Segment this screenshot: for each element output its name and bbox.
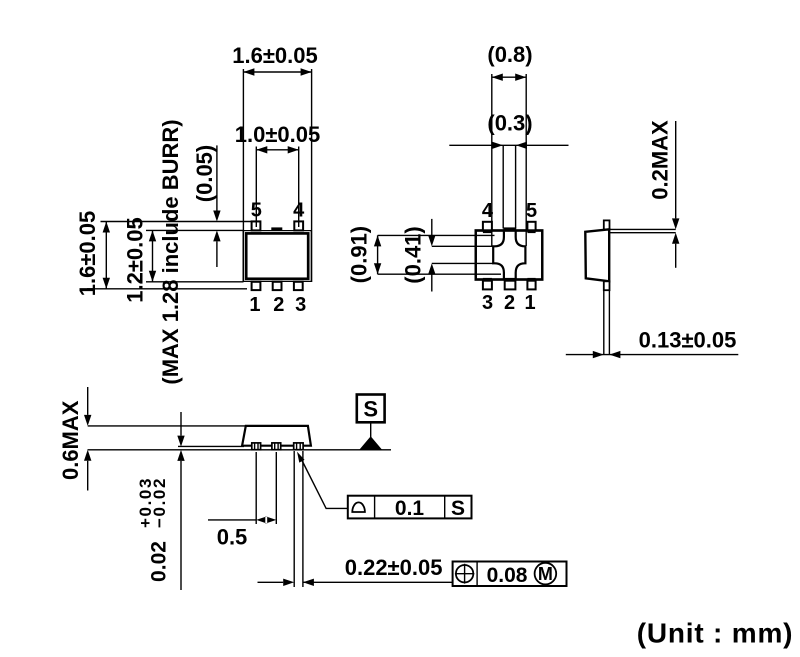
dimension line 0.5 [208, 519, 256, 521]
pin 5 bottom-view [527, 222, 535, 231]
lead 2 front view [272, 443, 281, 450]
svg-text:S: S [451, 497, 465, 520]
extension lines width 1.6 [243, 69, 311, 282]
datum stem [370, 422, 372, 438]
package body top view [246, 233, 308, 278]
extension lines width 1.0 [256, 147, 298, 227]
frame divider [476, 562, 478, 587]
body thin outline [243, 231, 311, 282]
dimension 0.05 lower line with up arrow [213, 230, 220, 241]
svg-text:(MAX 1.28 include BURR): (MAX 1.28 include BURR) [158, 119, 183, 384]
dimension 0.6MAX upper [87, 387, 89, 415]
pin 5 top-view [252, 221, 261, 230]
gate mark bump [271, 227, 282, 230]
dimension 0.41 upper segment [431, 219, 433, 235]
svg-text:1.6±0.05: 1.6±0.05 [75, 211, 100, 296]
dimension 0.05 upper line with down arrow [216, 145, 218, 210]
extension line 0.91 top [378, 234, 495, 236]
datum S box [357, 395, 385, 423]
pin tab bottom side-view [604, 281, 610, 290]
svg-text:0.13±0.05: 0.13±0.05 [639, 328, 737, 353]
svg-text:0.6MAX: 0.6MAX [58, 400, 83, 480]
dimension 0.41 lower segment [428, 263, 435, 274]
profile of surface symbol [352, 502, 365, 512]
svg-text:1.2±0.05: 1.2±0.05 [123, 217, 148, 302]
seating plane line [88, 449, 392, 451]
lead side-view lines [604, 290, 610, 354]
svg-text:5: 5 [251, 200, 262, 222]
dimension line 0.22±0.05 [258, 581, 453, 583]
position symbol [456, 565, 473, 582]
pin 4 stub [483, 231, 492, 234]
lead 1 centerline [255, 452, 257, 524]
pin 2 stub [504, 278, 516, 281]
lead frame pattern left outline [493, 231, 504, 281]
pin 1 top-view [252, 282, 261, 290]
leader line [301, 458, 348, 509]
dimension line 1.2±0.05 [152, 230, 154, 281]
pin 4 centerline [298, 221, 300, 227]
svg-text:3: 3 [295, 294, 306, 316]
leader arrowhead [297, 452, 305, 463]
body side view [585, 229, 609, 281]
svg-text:0.2MAX: 0.2MAX [648, 120, 673, 200]
svg-text:(0.41): (0.41) [401, 226, 426, 283]
svg-text:4: 4 [293, 200, 305, 222]
dimension line (0.3) [449, 144, 568, 146]
svg-text:1: 1 [249, 294, 260, 316]
svg-text:5: 5 [526, 200, 537, 222]
pin 4 top-view [294, 221, 303, 230]
package body bottom view [476, 231, 543, 280]
dimension 0.2MAX upper [675, 121, 677, 218]
lead 3 front view [294, 443, 303, 450]
lead frame pattern right outline [516, 231, 526, 281]
body outline redraw [476, 231, 543, 280]
dimension line (0.91) [377, 235, 379, 274]
svg-text:(0.8): (0.8) [487, 42, 532, 67]
extension line body top [146, 229, 244, 231]
pin 2 top-view [273, 282, 282, 290]
extension line body bottom [146, 281, 244, 283]
pin 5 stub [527, 231, 535, 234]
MMC modifier circle [535, 563, 557, 585]
pin 2 bottom-view [505, 281, 516, 290]
svg-text:0.1: 0.1 [395, 497, 425, 520]
svg-text:2: 2 [504, 292, 515, 314]
pin 3 top-view [294, 282, 303, 290]
frame dividers [375, 496, 445, 519]
body bottom extension line [178, 445, 244, 447]
svg-text:2: 2 [273, 294, 284, 316]
datum triangle [359, 436, 382, 450]
extension line 0.91 bottom [378, 273, 501, 275]
dimension 0.02 upper [180, 412, 182, 436]
pin 3 stub [483, 278, 492, 281]
pin 3 bottom-view [483, 281, 492, 290]
svg-text:3: 3 [482, 292, 493, 314]
extension lines 0.8 [492, 74, 526, 246]
extension line pin tops [101, 221, 262, 223]
extension lines 0.3 [503, 145, 515, 228]
extension line pin bottoms [87, 288, 247, 290]
max height line [88, 425, 245, 427]
svg-text:1.6±0.05: 1.6±0.05 [232, 43, 317, 68]
center lead stub top [503, 227, 516, 230]
svg-text:M: M [538, 564, 553, 584]
lead 3 edge lines [294, 451, 303, 587]
feature control frame profile [348, 496, 472, 519]
dimension line 1.6±0.05 left [105, 222, 107, 289]
svg-text:(0.3): (0.3) [487, 111, 532, 136]
svg-text:(Unit : mm): (Unit : mm) [637, 618, 794, 649]
svg-text:0.02: 0.02 [148, 541, 171, 582]
svg-text:1: 1 [524, 292, 535, 314]
dimension 0.6MAX lower [84, 450, 91, 461]
lead 1 front view [252, 443, 261, 450]
svg-text:(0.05): (0.05) [192, 145, 217, 202]
pin 1 bottom-view [527, 281, 535, 290]
pin 4 bottom-view [483, 222, 492, 231]
feature control frame position [453, 562, 567, 587]
lead 2 centerline [275, 452, 277, 524]
dimension line 1.6±0.05 top [243, 71, 311, 73]
svg-text:0.08: 0.08 [487, 564, 528, 587]
dimension line (0.8) [492, 76, 526, 78]
svg-text:0.22±0.05: 0.22±0.05 [345, 555, 443, 580]
dimension 0.02 lower [177, 450, 184, 461]
svg-text:1.0±0.05: 1.0±0.05 [235, 122, 320, 147]
lead top-surface lines [610, 229, 676, 232]
pin 5 centerline [255, 221, 257, 227]
dimension line 0.13±0.05 [566, 354, 739, 356]
svg-text:S: S [363, 397, 378, 422]
svg-text:4: 4 [482, 200, 494, 222]
dimension 0.2MAX lower [672, 233, 679, 244]
pin tab top side-view [604, 220, 610, 229]
lead inner ticks [255, 443, 301, 450]
svg-text:(0.91): (0.91) [347, 226, 372, 283]
dimension line 1.0±0.05 [256, 149, 298, 151]
body front view [242, 426, 311, 446]
svg-text:0.5: 0.5 [217, 525, 248, 550]
svg-text:−0.02: −0.02 [150, 477, 169, 528]
extension lines 0.41 [432, 246, 494, 263]
pin 1 stub [527, 278, 535, 281]
